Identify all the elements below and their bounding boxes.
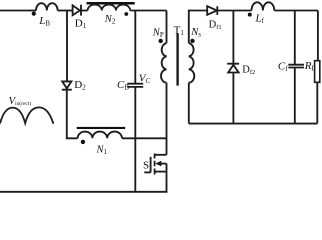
transformer T1 secondary winding Ns: [189, 43, 195, 82]
svg-text:NP: NP: [152, 28, 164, 40]
transformer T1 primary leg bottom / MOSFET drain: [166, 83, 168, 155]
capacitor Cf branch: [294, 11, 296, 65]
source Vin(rect) waveform: [0, 107, 53, 123]
inductor Lf: [252, 2, 275, 10]
svg-text:Lf: Lf: [255, 13, 265, 26]
dot Lf phase: [248, 13, 252, 17]
svg-text:Df2: Df2: [242, 65, 255, 77]
core bar over N2: [87, 2, 135, 5]
dot N1 phase: [81, 140, 85, 144]
transformer secondary leg top: [189, 11, 207, 44]
MOSFET S channel segments: [154, 154, 156, 175]
capacitor CB branch top: [134, 11, 136, 84]
wire N1 to drain node: [122, 137, 167, 139]
transformer T1 core: [176, 33, 178, 85]
transformer secondary leg bottom: [188, 83, 190, 124]
wire top-left rail: [0, 10, 36, 12]
diode Df2 branch: [232, 11, 234, 64]
svg-text:Df1: Df1: [209, 19, 222, 31]
wire Df2 to rail: [232, 73, 234, 124]
resistor RL branch top: [317, 11, 319, 61]
MOSFET S drain stub: [155, 154, 167, 156]
MOSFET S arrow body: [161, 163, 167, 165]
MOSFET S gate line: [150, 157, 152, 173]
wire LB to D1: [58, 10, 73, 12]
bottom rail primary: [0, 191, 168, 193]
node D2 branch vertical: [66, 11, 68, 82]
svg-text:S: S: [143, 159, 149, 171]
winding N1: [78, 132, 122, 139]
svg-text:D1: D1: [75, 18, 87, 31]
svg-text:CB: CB: [117, 79, 129, 92]
MOSFET S gate lead: [144, 171, 150, 173]
transformer T1 primary leg top: [166, 11, 168, 44]
dot LB phase: [32, 12, 36, 16]
diode D2: [62, 81, 72, 89]
wire D1 to N2: [81, 10, 88, 12]
wire D2 to N1: [67, 90, 78, 139]
inductor LB: [36, 3, 58, 10]
svg-text:T1: T1: [174, 24, 185, 37]
capacitor CB: [127, 84, 143, 87]
svg-text:LB: LB: [38, 15, 50, 28]
wire Lf to output: [274, 10, 318, 12]
wire Df1 to Lf: [217, 10, 251, 12]
svg-text:Vin(rect): Vin(rect): [9, 96, 32, 107]
wire CB bottom to ground rail: [134, 87, 136, 192]
diode D1: [73, 5, 81, 16]
bottom rail secondary: [189, 123, 317, 125]
core bar over N1: [77, 127, 126, 129]
winding N2: [88, 5, 131, 11]
svg-text:Cf: Cf: [278, 61, 288, 74]
MOSFET S source stub: [155, 171, 167, 173]
svg-text:N2: N2: [104, 14, 116, 26]
wire RL to rail: [316, 82, 318, 123]
diode Df2: [227, 64, 239, 73]
svg-text:Ns: Ns: [190, 27, 201, 39]
dot NP phase: [159, 39, 163, 43]
svg-text:N1: N1: [96, 145, 108, 157]
svg-text:VC: VC: [139, 72, 151, 85]
MOSFET S source vertical: [166, 164, 168, 192]
transformer T1 primary winding NP: [161, 43, 167, 82]
capacitor Cf: [288, 65, 304, 68]
diode Df1: [207, 6, 217, 15]
dot N2 phase: [124, 12, 128, 16]
svg-text:D2: D2: [74, 79, 86, 92]
MOSFET S arrow head: [155, 161, 161, 167]
resistor RL: [315, 61, 320, 83]
wire N2 to transformer: [130, 10, 166, 12]
wire Cf to rail: [294, 68, 296, 124]
dot Ns phase: [190, 39, 194, 43]
